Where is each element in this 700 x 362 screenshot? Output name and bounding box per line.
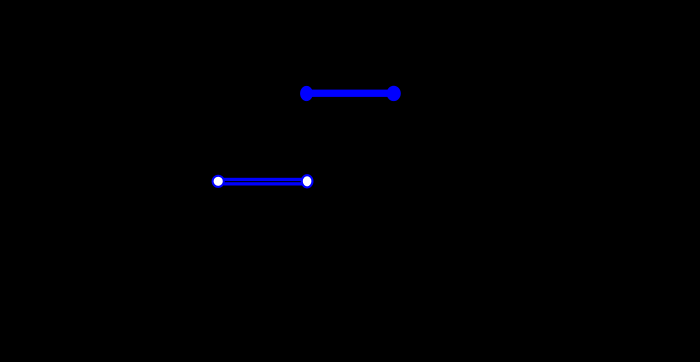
lower segment left open endpoint circle <box>213 176 224 187</box>
lower segment lower line <box>218 182 307 185</box>
lower segment right open endpoint circle <box>302 175 313 187</box>
lower segment upper line <box>218 178 307 181</box>
upper segment left closed endpoint dot <box>300 86 313 101</box>
upper segment line <box>307 90 394 97</box>
upper segment right closed endpoint dot <box>387 86 401 101</box>
